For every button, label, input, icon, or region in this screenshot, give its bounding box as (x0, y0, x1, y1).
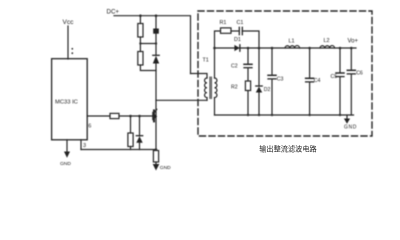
node source junction (155, 148, 158, 151)
transformer core (209, 77, 211, 99)
capacitor clamp (filled) (153, 29, 159, 34)
diode D1 (234, 45, 239, 51)
node rail C6 (350, 47, 353, 50)
node gate junction 1 (129, 115, 132, 118)
node rail-R (139, 14, 142, 17)
svg-text:MC33 IC: MC33 IC (55, 100, 78, 106)
wire gnd stub (346, 115, 348, 119)
svg-text:3: 3 (83, 143, 86, 149)
wire primary bottom (206, 98, 208, 101)
wire drain column (155, 64, 157, 150)
wire (139, 44, 141, 52)
diode gate clamp (136, 135, 142, 137)
wire pin3 down (80, 140, 82, 150)
svg-text:GND: GND (344, 124, 357, 130)
ground IC (64, 152, 70, 158)
wire clamp link (140, 43, 156, 45)
wire (139, 37, 141, 44)
resistor clamp lower (138, 52, 143, 66)
inductor L2 (320, 46, 335, 48)
wire (130, 147, 132, 150)
wire (139, 16, 141, 24)
wire (350, 74, 352, 115)
node rail-C (155, 14, 158, 17)
wire C6 column (350, 48, 352, 70)
svg-text:C6: C6 (356, 71, 363, 77)
wire IC ground (66, 140, 68, 152)
wire (155, 34, 157, 44)
capacitor C6 (347, 69, 355, 71)
capacitor C5 (336, 72, 344, 74)
wire (155, 16, 157, 29)
transformer secondary winding (215, 78, 217, 98)
svg-text:L1: L1 (289, 39, 295, 45)
node rail C5 (339, 47, 342, 50)
svg-text:Vcc: Vcc (63, 19, 75, 26)
capacitor C2 (244, 63, 252, 65)
wire gate (119, 115, 153, 117)
svg-text:GND: GND (160, 165, 171, 171)
node rail C2 (247, 47, 250, 50)
node rail D2 (258, 47, 261, 50)
wire (155, 162, 157, 164)
wire DC+ rail (114, 16, 191, 74)
resistor R2 (245, 81, 250, 91)
wire output rail (215, 47, 357, 49)
svg-text:输出整流滤波电路: 输出整流滤波电路 (259, 145, 317, 154)
ground source (153, 164, 160, 171)
wire C5 column (339, 48, 341, 73)
svg-text:DC+: DC+ (107, 9, 120, 16)
wire (247, 91, 249, 116)
svg-text:D1: D1 (234, 37, 241, 43)
wire to gate resistor-down (130, 116, 132, 133)
resistor source sense (153, 151, 158, 163)
svg-text:6: 6 (88, 124, 91, 130)
wire Vcc to IC (67, 26, 69, 59)
svg-text:C2: C2 (231, 64, 238, 70)
svg-text:T1: T1 (203, 58, 209, 64)
wire (247, 68, 249, 81)
wire secondary top (214, 48, 216, 78)
resistor R gate (110, 113, 119, 118)
node rail C3 (271, 47, 274, 50)
wire output bottom rail (215, 114, 354, 116)
wire to gate diode (139, 116, 141, 136)
dashed box output filter (198, 11, 372, 136)
wire (339, 77, 341, 115)
wire drain to primary (156, 99, 207, 101)
snubber loop R1 C1 (215, 31, 221, 48)
wire bottom return (81, 149, 156, 151)
wire (155, 44, 157, 56)
diode D2 (256, 85, 262, 87)
svg-text:C3: C3 (277, 77, 284, 83)
svg-text:GND: GND (60, 161, 71, 167)
wire pin6 to gate resistor (87, 115, 110, 117)
op-amp U1 (PWM controller IC box) (52, 59, 88, 140)
resistor gate-pulldown (128, 133, 133, 147)
capacitor C4 (306, 77, 314, 79)
svg-text:C1: C1 (237, 20, 244, 26)
svg-text:C4: C4 (314, 78, 321, 84)
diode clamp (153, 54, 159, 56)
inductor L1 (285, 46, 300, 48)
node rail C4 (308, 47, 311, 50)
svg-text:R2: R2 (231, 85, 238, 91)
wire (271, 79, 273, 115)
wire C4 column (309, 48, 311, 78)
ground output (344, 119, 350, 124)
svg-text:R1: R1 (220, 20, 227, 26)
wire elbow (140, 65, 156, 71)
wire (309, 82, 311, 115)
wire (139, 143, 141, 150)
node gate junction 2 (138, 115, 141, 118)
capacitor C1 (238, 27, 240, 34)
wire (231, 30, 239, 32)
wire (258, 93, 260, 116)
wire secondary bottom (214, 98, 216, 115)
svg-text:Vo+: Vo+ (348, 39, 359, 45)
resistor R1 (221, 28, 232, 33)
transistor Q1 (152, 112, 154, 119)
svg-text:D2: D2 (264, 87, 271, 93)
svg-text:L2: L2 (324, 38, 330, 44)
capacitor C3 (268, 74, 276, 76)
wire (242, 31, 259, 48)
wire (247, 48, 249, 64)
wire primary top (191, 74, 208, 79)
resistor clamp upper (138, 24, 143, 38)
wire C3 column (271, 48, 273, 75)
wire D2 column (258, 48, 260, 86)
pin 7 dots (71, 48, 73, 50)
transformer primary winding (205, 78, 207, 98)
